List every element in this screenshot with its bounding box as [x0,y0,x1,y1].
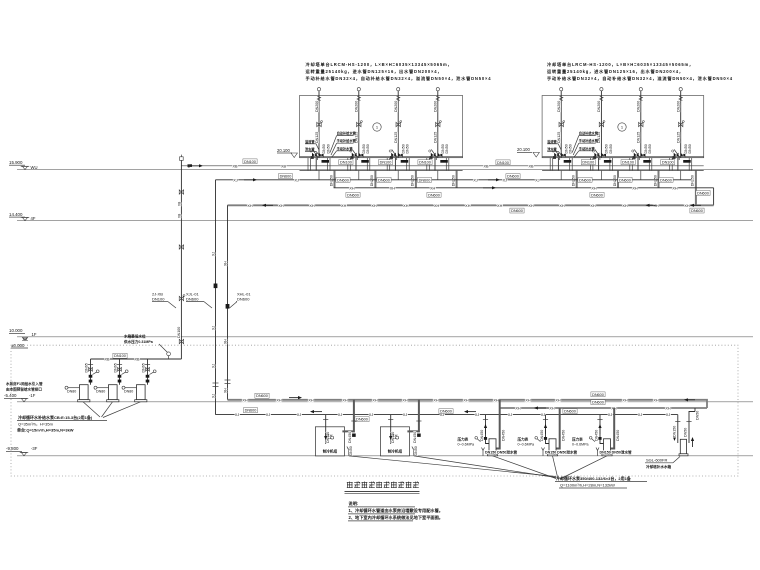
svg-text:DN600: DN600 [378,178,390,182]
chiller leader line 2 [414,456,556,478]
circulating pump XP1 drain funnel [482,448,484,456]
svg-text:XH: XH [349,186,355,190]
tower CT2-2 return drop DN250 [617,171,619,188]
svg-text:XH: XH [223,261,227,266]
tower CT1-2 basin cell [347,158,349,171]
svg-text:DN100: DN100 [244,160,256,164]
svg-text:XB: XB [232,164,238,168]
svg-text:DN600: DN600 [280,175,292,179]
row B drop to make-up pump [689,408,695,443]
circulating pump XP1 spec leader [493,456,557,479]
cooling tower group CT2 enclosure [542,96,704,158]
svg-text:DN50: DN50 [648,144,652,153]
svg-text:DN100: DN100 [177,327,181,338]
chiller CH1 inlet flow arrow [325,433,327,437]
svg-text:供水压力0.31MPa: 供水压力0.31MPa [123,339,154,344]
tower CT2-1 drain funnel [555,150,560,161]
svg-text:XJ: XJ [508,413,513,417]
svg-text:手动补给水管DN32×4，自动补给水管DN32×4，溢流管D: 手动补给水管DN32×4，自动补给水管DN32×4，溢流管DN50×4，泄水管D… [547,75,733,82]
circulating pump XP3 discharge arrow [599,427,601,434]
basin makeup header DN100 labels CT1 [339,160,353,165]
tower CT1-3 outlet valves [391,153,396,158]
svg-text:冷却塔补水水箱: 冷却塔补水水箱 [646,464,672,469]
make-up pump CB-1 body [80,385,89,400]
XJ riser union ticks [213,382,219,384]
tower CT2-3 riser shutoff valve [639,122,643,126]
tower CT2-2 supply stub into XJ main [600,171,602,180]
svg-text:由本图预留给水管接口: 由本图预留给水管接口 [6,386,42,391]
svg-text:XH: XH [622,398,628,402]
svg-text:DN600: DN600 [691,209,703,213]
tower CT1-2 drain funnel [352,150,357,161]
svg-text:XH: XH [371,204,377,208]
make-up pump CB-2 drop pipe DN65 [119,359,121,385]
chiller CH2 thermometer [396,436,399,439]
svg-text:XH: XH [590,204,596,208]
circulating pump XP1 discharge arrow [485,427,487,434]
svg-text:XJ: XJ [235,413,240,417]
svg-text:XH: XH [223,388,227,393]
chiller CH2 drain funnel DN50 [412,447,414,456]
svg-text:WU: WU [31,165,38,170]
svg-text:DN200: DN200 [597,101,601,112]
svg-text:单台:Q=15m³/h,H=35m,N=3kW: 单台:Q=15m³/h,H=35m,N=3kW [17,426,74,432]
XB make-up riser 2J-XB DN100 [180,157,184,161]
svg-text:4F: 4F [31,216,36,221]
svg-text:DN125: DN125 [637,132,641,143]
XH riser union ticks [225,379,231,381]
chiller leader line 1 [349,456,556,477]
tower CT2-3 supply stub into XJ main [640,171,642,180]
svg-text:DN600: DN600 [419,178,431,182]
XB flow arrow [191,165,200,167]
water level mark 20.100 right [517,147,539,157]
collector right end drop to XH main [713,188,715,206]
svg-text:DN600: DN600 [592,401,604,405]
circulating pump XP3 discharge valve tick [597,419,602,421]
svg-text:DN600: DN600 [440,410,452,414]
svg-text:XJ: XJ [297,413,302,417]
svg-text:XB: XB [281,164,287,168]
tower CT2-2 basin outlet valve [604,160,612,163]
chiller CH1 thermometer [331,436,334,439]
svg-text:DN250: DN250 [451,175,455,186]
XH main flow arrow [693,204,701,206]
circulating pump XP2 spec leader [553,456,559,479]
svg-text:DN200: DN200 [315,101,319,112]
svg-text:DN450: DN450 [616,430,620,441]
underground boundary dashed box [11,345,738,476]
svg-text:XB: XB [134,358,140,362]
svg-text:DN600: DN600 [507,175,519,179]
svg-text:XB: XB [177,214,181,218]
row A flow arrow [289,397,299,399]
svg-text:XH: XH [372,398,378,402]
svg-text:DN125: DN125 [677,132,681,143]
svg-text:自动补给水管: 自动补给水管 [579,131,599,136]
chiller CH1 outlet check [352,434,356,437]
cooling tower group CT1 enclosure [300,96,463,158]
svg-text:XH: XH [434,204,440,208]
make-up pump spec text [17,414,107,432]
svg-text:-3F: -3F [31,446,38,451]
tower CT1-2 return drop DN250 [374,171,376,188]
svg-text:DN50: DN50 [688,144,692,153]
XH tower outlet collector DN600 [334,187,714,189]
svg-text:XJ: XJ [338,413,343,417]
group number mark 1 [373,123,381,131]
-3F level line -9.800 [17,455,753,457]
XJ supply main DN600 (roof) [216,179,692,181]
tower CT2-2 inlet riser DN200 [600,88,603,91]
make-up pump CB-1 gauge [96,370,99,373]
svg-text:XJ: XJ [211,394,215,398]
tower CT1-1 inlet riser DN200 [317,88,320,91]
svg-text:DN450: DN450 [540,430,544,441]
XB riser valve 3 [179,339,183,343]
basin makeup header DN100 labels CT2 [581,160,595,165]
svg-text:DN450: DN450 [413,432,417,443]
tower CT1-4 riser shutoff valve [436,122,440,126]
svg-text:运转重量25140kg，进水管DN125×16，出水管DN2: 运转重量25140kg，进水管DN125×16，出水管DN200×4， [306,68,443,75]
tower CT2-1 basin outlet valve [564,160,572,163]
tower CT2-3 inlet riser DN200 [639,88,642,91]
svg-text:Q=35m³/h，H=35m: Q=35m³/h，H=35m [18,421,54,426]
svg-text:DN250: DN250 [411,175,415,186]
make-up pump CB-2 body [109,385,118,400]
svg-text:XJ: XJ [535,178,540,182]
XH main flow arrow left [265,204,273,206]
svg-text:DN600: DN600 [245,409,257,413]
make-up pump CB-2 gauge [125,370,128,373]
svg-text:-1F: -1F [29,393,36,398]
chiller CH2 inlet pipe DN450 [390,415,392,444]
svg-text:XH: XH [402,398,408,402]
make-up pump CB-3 drop valve [145,364,150,366]
svg-text:XH: XH [309,204,315,208]
svg-text:XH: XH [493,398,499,402]
svg-text:手动补水管: 手动补水管 [579,146,596,151]
row B flow arrow [537,407,546,409]
svg-text:XJ: XJ [211,252,215,256]
svg-text:XH: XH [465,204,471,208]
svg-text:泄水管: 泄水管 [305,146,315,151]
svg-text:DN200: DN200 [637,101,641,112]
svg-text:XH: XH [403,204,409,208]
svg-text:0~0.6MPa: 0~0.6MPa [458,442,474,446]
svg-text:-9.800: -9.800 [6,446,19,451]
tower CT1-4 flexible joint [436,96,439,100]
svg-text:XB: XB [483,164,489,168]
svg-text:DN50: DN50 [349,446,353,455]
svg-text:水箱最低水位: 水箱最低水位 [123,334,146,339]
svg-text:DN100: DN100 [497,161,509,165]
tank make-up pump body [680,439,686,454]
svg-text:DN600: DN600 [237,297,250,302]
4F level line 14.400 [17,220,753,222]
svg-text:DN50: DN50 [609,144,613,153]
level marker 14.400 4F [9,212,36,221]
tower CT2-2 riser shutoff valve [599,122,603,126]
tower CT2-1 flexible joint [560,96,563,100]
svg-text:XJ: XJ [266,413,271,417]
chiller CH1 body [315,427,344,456]
svg-text:XH: XH [622,204,628,208]
svg-text:20.100: 20.100 [517,147,530,152]
tower CT1-4 outlet valves [431,153,436,158]
svg-text:XH: XH [549,407,555,411]
basin band of group CT1 [300,155,463,157]
svg-text:溢流管: 溢流管 [547,139,557,144]
tower CT1-2 basin outlet valve [361,160,369,163]
tower CT1-4 supply stub into XJ main [437,171,439,180]
circulating pump XP1 body [489,439,496,454]
tower CT2-4 return drop DN250 [695,171,697,206]
tower CT1-3 drain funnel [392,150,397,161]
svg-text:说明:: 说明: [349,500,359,507]
svg-text:XH: XH [342,398,348,402]
tower CT2-1 inlet riser DN200 [560,88,563,91]
svg-text:DN150: DN150 [673,426,677,437]
svg-text:DN50: DN50 [414,446,418,455]
tower CT1-3 supply stub into XJ main [397,171,399,180]
svg-text:DN125: DN125 [434,132,438,143]
XB riser valve 1 [179,190,183,194]
tower CT1-1 drain funnel [313,150,318,161]
circulating pump XP2 pressure gauge [535,437,538,440]
chiller CH1 inlet pipe DN450 [325,415,327,444]
svg-text:XH: XH [528,204,534,208]
svg-text:DN600: DN600 [337,178,349,182]
svg-text:DN200: DN200 [677,101,681,112]
svg-text:0~0.6MPa: 0~0.6MPa [518,442,534,446]
svg-text:手动补水管: 手动补水管 [337,146,354,151]
circulating pump XP2 body [549,439,556,454]
svg-text:XH: XH [223,339,227,344]
svg-text:XH: XH [555,398,561,402]
svg-text:XH: XH [308,398,314,402]
svg-text:XH: XH [672,186,678,190]
drawing title 冷却循环水系统原理图 (drawn strokes) [347,482,419,488]
svg-text:DN600: DN600 [697,191,709,195]
svg-text:DN150 DN50泄水管: DN150 DN50泄水管 [600,450,633,455]
svg-text:DN100: DN100 [662,161,674,165]
circulating pump XP3 body [604,439,611,454]
chiller CH2 outlet check [417,434,421,437]
svg-text:XJ: XJ [608,413,613,417]
svg-text:压力表: 压力表 [572,437,583,442]
cooling tower spec note (right group) [547,61,733,82]
svg-text:XJ: XJ [369,413,374,417]
svg-text:XB: XB [528,164,534,168]
circulating pump XP1 pressure gauge [475,437,478,440]
svg-text:XH: XH [497,204,503,208]
level marker -5.400 -1F [4,393,36,402]
tower CT1-3 basin outlet valve [401,160,409,163]
make-up pump CB-3 body [137,385,146,400]
tower CT2-3 basin cell [629,158,631,171]
svg-text:XH: XH [653,204,659,208]
chiller CH2 body [380,427,409,456]
svg-text:1、冷却循环水管道由水泵房沿墙敷设专用配水管。: 1、冷却循环水管道由水泵房沿墙敷设专用配水管。 [349,507,443,514]
circulating pump XP3 suction pipe DN450 [610,408,614,449]
svg-text:DN100: DN100 [582,161,594,165]
svg-text:冷却循环水补给水泵CB:E:15-3台(2用1备): 冷却循环水补给水泵CB:E:15-3台(2用1备) [18,414,93,420]
circulating pump XP2 discharge valve tick [543,419,548,421]
tower CT2-2 drain funnel [595,150,600,161]
svg-text:XJ: XJ [666,413,671,417]
svg-text:15.900: 15.900 [9,160,23,165]
svg-text:DN450: DN450 [348,432,352,443]
tower CT2-4 riser shutoff valve [679,122,683,126]
svg-text:XJ: XJ [233,178,238,182]
svg-text:XJ: XJ [473,178,478,182]
circulating pump XP3 discharge pipe DN450 [600,415,606,444]
svg-text:XH: XH [341,204,347,208]
svg-text:DN600: DN600 [428,193,440,197]
svg-text:DN250: DN250 [653,175,657,186]
tower CT1-2 outlet valves [352,153,357,158]
make-up pump CB-1 drop pipe DN65 [90,359,92,385]
tower CT2-1 basin cell [549,158,551,171]
svg-text:自动补给水管: 自动补给水管 [337,131,357,136]
chiller CH1 outlet valve tick [351,420,356,422]
tower CT1-1 riser shutoff valve [317,122,321,126]
svg-text:10.000: 10.000 [9,328,23,333]
svg-text:XH: XH [242,398,248,402]
XH return main DN600 (roof) [228,204,714,206]
svg-text:XH: XH [278,204,284,208]
svg-text:DN600: DN600 [660,178,672,182]
svg-text:XH: XH [463,398,469,402]
svg-text:2、地下室内冷却循环水系统做法见地下室平面图。: 2、地下室内冷却循环水系统做法见地下室平面图。 [349,514,443,521]
water level mark 20.100 left [277,148,297,158]
svg-text:DN200: DN200 [355,101,359,112]
svg-text:DN80: DN80 [124,390,133,394]
svg-text:DN200: DN200 [394,101,398,112]
chiller CH2 inlet flow arrow [390,433,392,437]
circulating pump XP3 spec leader [560,456,607,479]
1F level line 10.000 [17,336,753,338]
svg-text:DN600: DN600 [619,178,631,182]
tower CT1-3 return drop DN250 [415,171,417,188]
tower CT1-4 inlet riser DN200 [436,88,439,91]
svg-text:DN125: DN125 [394,132,398,143]
svg-text:DN450: DN450 [480,430,484,441]
tower CT1-2 riser shutoff valve [357,122,361,126]
svg-text:DN250: DN250 [370,175,374,186]
svg-text:DN100: DN100 [340,161,352,165]
circulating pump XP2 discharge arrow [545,427,547,434]
circulating pump XP1 discharge pipe DN450 [486,415,492,444]
tower CT1-1 outlet valves [312,153,317,158]
svg-text:1F: 1F [32,332,37,337]
make-up pump CB-2 check valve [118,375,122,378]
tower CT2-1 supply stub into XJ main [560,171,562,180]
svg-text:DN200: DN200 [434,101,438,112]
tower CT2-4 basin outlet valve [683,160,691,163]
-1F level line -5.400 [17,401,753,403]
svg-text:XH: XH [632,186,638,190]
svg-text:DN600: DN600 [579,178,591,182]
svg-text:XH: XH [515,407,521,411]
tower CT2-3 flexible joint [639,96,642,100]
svg-text:DN50: DN50 [683,428,687,437]
svg-text:DN250: DN250 [691,175,695,186]
XB riser label 2J-XB DN100 [152,292,176,308]
svg-text:压力表: 压力表 [458,437,469,442]
tower CT2-4 flexible joint [679,96,682,100]
svg-text:DN600: DN600 [186,297,199,302]
tower CT2-4 drain funnel [674,150,679,161]
XB riser valve 2 [179,245,183,249]
svg-text:运转重量25140kg，进水管DN125×16，出水管DN2: 运转重量25140kg，进水管DN125×16，出水管DN200×4， [547,68,684,75]
tower CT1-1 supply stub into XJ main [318,171,320,180]
svg-text:0~0.6MPa: 0~0.6MPa [572,442,588,446]
svg-text:DN50: DN50 [406,144,410,153]
XH riser valve [226,304,230,309]
make-up header DN100 at -1F [91,358,182,360]
chiller CH1 inlet valve tick [323,419,328,421]
circulating pump XP2 drain funnel [542,448,544,456]
svg-text:XJ: XJ [211,364,215,368]
svg-text:DN50: DN50 [696,411,700,420]
basement XJ main row C DN600 [216,414,678,416]
tower CT2-2 basin cell [589,158,591,171]
svg-text:XH: XH [525,398,531,402]
tower CT2-1 outlet valves [554,153,559,158]
svg-text:DN600: DN600 [591,193,603,197]
svg-text:XJ: XJ [638,413,643,417]
group number mark 1 [618,123,626,131]
svg-text:DN100: DN100 [152,297,165,302]
svg-text:XH: XH [276,398,282,402]
svg-text:泄水管: 泄水管 [547,146,557,151]
svg-text:DN125: DN125 [315,132,319,143]
circulating pump XP3 pressure gauge [589,437,592,440]
circulating pump XP3 check valve [598,437,601,440]
svg-text:DN450: DN450 [502,430,506,441]
tower CT2-1 return drop DN250 [576,171,578,188]
svg-text:DN450: DN450 [595,430,599,441]
tower CT1-1 return drop DN250 [334,171,336,188]
svg-text:DN250: DN250 [572,175,576,186]
make-up pump CB-3 check valve [146,375,150,378]
make-up pump spec leader lines [83,402,100,417]
tower CT2-3 outlet valves [634,153,639,158]
tower CT2-3 drain funnel [634,150,639,161]
svg-text:DN600: DN600 [564,410,576,414]
make-up pump CB-3 gauge [153,370,156,373]
svg-text:DN80: DN80 [96,390,105,394]
svg-text:XH: XH [665,407,671,411]
basin band of group CT2 [542,155,704,157]
XB riser butterfly valve [179,296,183,300]
tower CT1-4 basin outlet valve [440,160,448,163]
tank level gauge on header [159,344,167,352]
svg-text:冷却塔单台LRCM-HS-1200，L×B×H=6035×1: 冷却塔单台LRCM-HS-1200，L×B×H=6035×13345×5065m… [306,61,453,68]
svg-text:DN600: DN600 [256,394,268,398]
tower CT1-1 basin cell [307,158,309,171]
chiller CH1 outlet pipe DN450 [342,400,354,432]
svg-text:XJ: XJ [503,178,508,182]
tower CT1-1 basin outlet valve [322,160,330,163]
svg-text:XH: XH [430,186,436,190]
svg-text:XJ: XJ [541,413,546,417]
svg-text:溢流管: 溢流管 [305,139,315,144]
svg-text:DN50: DN50 [366,144,370,153]
svg-text:XJ: XJ [294,178,299,182]
